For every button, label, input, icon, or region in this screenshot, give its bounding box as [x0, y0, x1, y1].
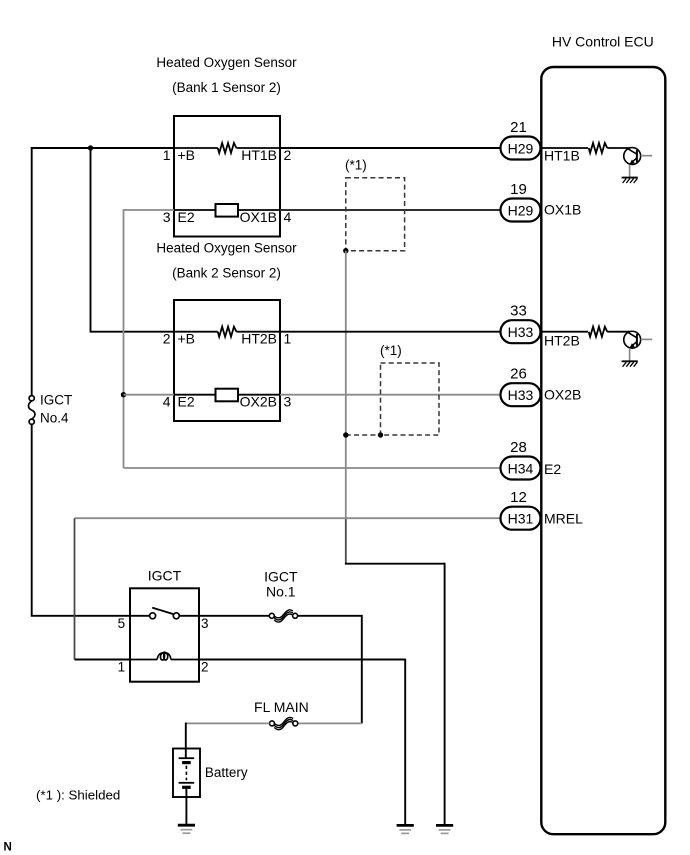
- resistor HT1B heater: [218, 143, 237, 153]
- oxygen cell sensor2: [216, 389, 239, 402]
- svg-text:(Bank 1 Sensor 2): (Bank 1 Sensor 2): [172, 80, 281, 95]
- svg-text:E2: E2: [544, 461, 561, 477]
- junction dot +B branch: [88, 145, 93, 150]
- svg-text:Heated Oxygen Sensor: Heated Oxygen Sensor: [156, 55, 297, 70]
- shield dashed box 1: [346, 178, 405, 251]
- connector H33 pin 33: [501, 320, 541, 343]
- svg-text:4: 4: [163, 394, 171, 410]
- svg-text:H34: H34: [508, 460, 534, 476]
- svg-text:MREL: MREL: [544, 510, 583, 526]
- wire sensor1 E2 left segment: [124, 209, 175, 211]
- wire sensor2 HT2B internal: [236, 331, 280, 333]
- wire left vertical corner to relay pin 5: [31, 615, 130, 617]
- resistor HT1B ECU: [589, 143, 608, 153]
- junction dot box2 corner: [378, 432, 383, 437]
- HV Control ECU box: [541, 67, 665, 834]
- svg-text:OX2B: OX2B: [240, 394, 277, 410]
- emitter wire to ground HT2B driver: [629, 348, 631, 361]
- svg-text:+B: +B: [178, 147, 196, 163]
- svg-text:3: 3: [201, 616, 209, 631]
- svg-text:19: 19: [510, 181, 527, 198]
- junction dot shield wire at box2: [343, 432, 348, 437]
- svg-text:HT2B: HT2B: [544, 332, 580, 348]
- wire MREL vertical to relay coil: [74, 518, 76, 659]
- svg-text:H31: H31: [508, 511, 534, 527]
- svg-text:3: 3: [163, 209, 171, 225]
- wire down to FL MAIN row: [361, 615, 363, 724]
- relay IGCT box: [130, 588, 199, 681]
- ground battery: [178, 825, 195, 833]
- shield dashed box 2: [381, 363, 440, 435]
- svg-text:2: 2: [163, 331, 171, 347]
- wire sensor2 pin2 +B internal: [174, 331, 218, 333]
- sensor 2 box: [174, 300, 280, 421]
- connector H31 pin 12: [501, 507, 541, 530]
- wire MREL run from H31-12: [75, 517, 501, 519]
- wire sensor1 pin1 +B internal: [174, 147, 218, 149]
- sensor 1 box: [174, 116, 280, 237]
- svg-text:OX2B: OX2B: [544, 386, 581, 402]
- svg-text:28: 28: [510, 439, 527, 456]
- svg-text:HT1B: HT1B: [544, 147, 580, 163]
- wire relay pin3 to fuse: [199, 615, 269, 617]
- wire fuse to right corner: [298, 615, 362, 617]
- transistor HT2B driver: [624, 331, 641, 348]
- wire sensor1 pin4 to H29-19: [280, 209, 501, 211]
- svg-text:33: 33: [510, 303, 527, 320]
- svg-text:H29: H29: [508, 140, 534, 156]
- svg-text:5: 5: [118, 616, 126, 631]
- svg-text:H29: H29: [508, 202, 534, 218]
- relay switch contacts: [130, 608, 199, 619]
- svg-text:(Bank 2 Sensor 2): (Bank 2 Sensor 2): [172, 266, 281, 281]
- wire +B row sensor 1: [31, 147, 174, 149]
- emitter wire to ground HT1B driver: [629, 165, 631, 178]
- svg-text:HV Control ECU: HV Control ECU: [552, 34, 654, 50]
- collector stub HT1B driver: [641, 155, 653, 157]
- wire left vertical below fuse: [31, 424, 33, 616]
- junction dot E2 sensor2: [121, 392, 126, 397]
- wire FL MAIN left segment: [186, 722, 270, 724]
- svg-text:OX1B: OX1B: [240, 209, 277, 225]
- connector H34 pin 28: [501, 457, 541, 480]
- svg-text:No.4: No.4: [40, 410, 69, 425]
- svg-text:FL MAIN: FL MAIN: [254, 699, 309, 715]
- wire pin2 down to ground: [404, 659, 406, 826]
- connector H29 pin 21: [501, 137, 541, 160]
- svg-text:2: 2: [201, 660, 209, 675]
- svg-text:H33: H33: [508, 387, 534, 403]
- svg-text:Battery: Battery: [205, 765, 248, 780]
- transistor HT1B driver: [624, 148, 641, 165]
- svg-text:3: 3: [284, 394, 292, 410]
- wire shield drain vertical: [345, 251, 347, 519]
- svg-text:N: N: [4, 842, 12, 854]
- junction dot shield 1: [343, 248, 348, 253]
- svg-text:26: 26: [510, 366, 527, 383]
- svg-text:No.1: No.1: [266, 583, 296, 599]
- chassis ground HT1B driver: [622, 178, 638, 183]
- wire relay pin2 out: [199, 659, 405, 661]
- wire HT1B internal ECU: [541, 147, 589, 149]
- wire sensor1 pin2 to H29-21: [280, 147, 501, 149]
- fusible link FL MAIN: [270, 717, 298, 729]
- resistor HT2B heater: [218, 327, 237, 337]
- battery cells: [179, 758, 195, 787]
- svg-text:HT1B: HT1B: [241, 147, 277, 163]
- svg-text:HT2B: HT2B: [241, 331, 277, 347]
- wire sensor1 pin3 internal: [174, 209, 216, 211]
- wire sensor2 pin4 internal: [174, 394, 216, 396]
- chassis ground HT2B driver: [622, 361, 638, 366]
- svg-text:1: 1: [118, 660, 126, 675]
- svg-text:(*1): (*1): [380, 343, 402, 358]
- oxygen cell sensor1: [216, 204, 239, 217]
- wire shield drain right vertical: [444, 563, 446, 826]
- battery box: [173, 749, 200, 798]
- wire E2 vertical: [123, 209, 125, 468]
- wire sensor2 OX2B internal: [238, 394, 280, 396]
- connector H29 pin 19: [501, 199, 541, 222]
- svg-text:OX1B: OX1B: [544, 202, 581, 218]
- fuse IGCT No.4: [28, 396, 34, 425]
- resistor HT2B ECU: [589, 327, 608, 337]
- svg-text:12: 12: [510, 489, 527, 506]
- wire shield drain jog: [345, 563, 445, 565]
- wire relay coil pin1 segment: [75, 659, 131, 661]
- wire sensor1 OX1B internal: [238, 209, 280, 211]
- wire sensor2 E2 left segment: [124, 394, 175, 396]
- svg-text:4: 4: [284, 209, 292, 225]
- wire E2 bottom run to H34-28: [124, 467, 501, 469]
- wire sensor2 pin1 to H33-33: [280, 331, 501, 333]
- svg-text:E2: E2: [178, 209, 195, 225]
- svg-text:Heated Oxygen Sensor: Heated Oxygen Sensor: [156, 241, 297, 256]
- relay coil: [130, 652, 199, 660]
- wire +B row sensor 2: [90, 331, 174, 333]
- wire +B branch vertical to sensor 2: [90, 148, 92, 332]
- svg-text:(*1 ): Shielded: (*1 ): Shielded: [36, 788, 120, 803]
- svg-text:(*1): (*1): [345, 158, 367, 173]
- connector H33 pin 26: [501, 383, 541, 406]
- svg-text:1: 1: [284, 331, 292, 347]
- wire down to battery: [185, 723, 187, 759]
- svg-text:2: 2: [284, 147, 292, 163]
- ground shield: [436, 825, 453, 833]
- svg-text:H33: H33: [508, 324, 534, 340]
- wire battery to ground: [185, 789, 187, 825]
- wire sensor2 pin3 to H33-26: [280, 394, 501, 396]
- collector stub HT2B driver: [641, 338, 653, 340]
- wire HT2B internal ECU: [541, 331, 589, 333]
- fusible link IGCT No.1: [269, 610, 297, 622]
- svg-text:+B: +B: [178, 331, 196, 347]
- wire +B feed left vertical: [31, 147, 33, 396]
- wire sensor1 HT1B internal: [236, 147, 280, 149]
- ground relay: [397, 825, 414, 833]
- svg-text:21: 21: [510, 119, 527, 136]
- shield 2 dashed link: [346, 434, 381, 436]
- svg-text:IGCT: IGCT: [264, 569, 298, 585]
- svg-text:E2: E2: [178, 394, 195, 410]
- svg-text:IGCT: IGCT: [148, 568, 182, 584]
- svg-text:1: 1: [163, 147, 171, 163]
- svg-text:IGCT: IGCT: [40, 393, 72, 408]
- wire FL MAIN right segment: [298, 722, 362, 724]
